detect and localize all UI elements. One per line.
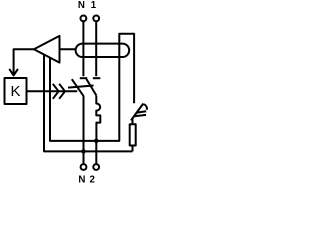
wire N conductor lower (83, 96, 85, 165)
arrowhead into K (9, 69, 18, 76)
test button blade (131, 104, 143, 121)
resistor bottom lead (132, 146, 134, 152)
svg-text:K: K (10, 83, 20, 100)
wire amplifier output (14, 49, 34, 73)
test button cap arc (143, 104, 147, 110)
svg-text:N: N (78, 0, 85, 11)
mechanical linkage bar (68, 86, 94, 88)
terminal N bottom (81, 164, 87, 170)
wire N conductor upper (82, 21, 84, 76)
contact tick right pole (93, 77, 100, 79)
junction dot coil bottom (94, 139, 99, 144)
trip coil winding (96, 96, 100, 141)
terminal N top (81, 16, 87, 22)
svg-text:1: 1 (91, 0, 97, 11)
test button bar 2 (134, 115, 146, 116)
switch blade left pole (72, 79, 84, 96)
resistor top lead (132, 118, 134, 124)
test button bar 1 (136, 111, 146, 112)
wire L conductor lower (95, 141, 97, 164)
wire amp input A to test loop outer (44, 55, 133, 152)
svg-text:N: N (78, 175, 85, 186)
chevron arrow 2 (59, 84, 65, 99)
switch blade right pole (86, 79, 96, 96)
wire L conductor upper (95, 21, 97, 76)
test resistor R (130, 124, 136, 145)
current transformer toroid (76, 44, 130, 57)
relay K box (5, 78, 27, 104)
op-amp U1 triangle (34, 36, 60, 63)
svg-text:2: 2 (90, 175, 95, 186)
wire amp input B to test loop inner (50, 34, 134, 141)
junction dot N test (81, 149, 86, 154)
wire toroid to amplifier (60, 48, 76, 50)
wire K trip linkage (27, 90, 78, 92)
terminal 2 bottom (93, 164, 99, 170)
contact tick left pole (80, 77, 87, 79)
terminal 1 top (93, 16, 99, 22)
chevron arrow 1 (53, 84, 59, 99)
